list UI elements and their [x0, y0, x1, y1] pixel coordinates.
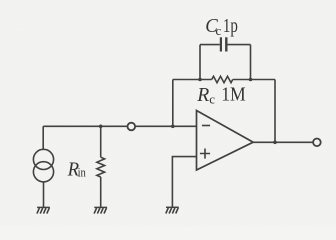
ground (Rin)	[94, 207, 107, 213]
junction dot at output node	[273, 141, 277, 145]
wire: input horizontal (node between source and inverting input)	[43, 125, 196, 127]
wire: resistor Rc left lead	[173, 79, 212, 81]
ground (op-amp + input)	[166, 207, 179, 213]
junction dot at feedback/input	[171, 125, 175, 129]
wire: capacitor branch left vertical	[199, 45, 201, 80]
paper texture overlay	[0, 0, 1, 1]
wire: current source bottom lead	[43, 182, 45, 208]
wire: feedback left vertical	[172, 80, 174, 127]
wire: capacitor branch right vertical	[250, 45, 252, 80]
junction dot at Rc right / Cc right	[249, 78, 253, 82]
wire: non-inverting input to ground	[172, 157, 196, 208]
junction dot at Rin tap	[99, 125, 103, 129]
resistor Rc zigzag	[212, 76, 233, 82]
wire: current source top lead	[42, 126, 44, 149]
current source (lower circle)	[33, 162, 53, 182]
junction dot at Rc left / Cc left	[198, 78, 202, 82]
wire: capacitor Cc right lead	[228, 44, 251, 46]
wire: feedback right vertical to output	[274, 80, 276, 143]
wire: resistor Rc right lead	[233, 79, 275, 81]
op-amp inverting input minus sign	[202, 125, 210, 127]
op-amp non-inverting input plus sign	[200, 149, 210, 159]
wire: capacitor Cc left lead	[200, 44, 220, 46]
capacitor C_c plate right	[225, 37, 227, 51]
resistor Rin zigzag	[97, 157, 105, 177]
current source (upper circle)	[33, 149, 53, 169]
wire: Rin top lead	[100, 126, 102, 157]
wire: output horizontal	[253, 141, 313, 143]
capacitor C_c plate left	[220, 37, 222, 51]
output terminal open circle	[313, 139, 321, 147]
op-amp U1 triangle	[197, 111, 254, 171]
ground (current source)	[37, 207, 50, 213]
wire: Rin bottom lead	[100, 177, 102, 207]
input terminal open circle	[128, 123, 136, 131]
